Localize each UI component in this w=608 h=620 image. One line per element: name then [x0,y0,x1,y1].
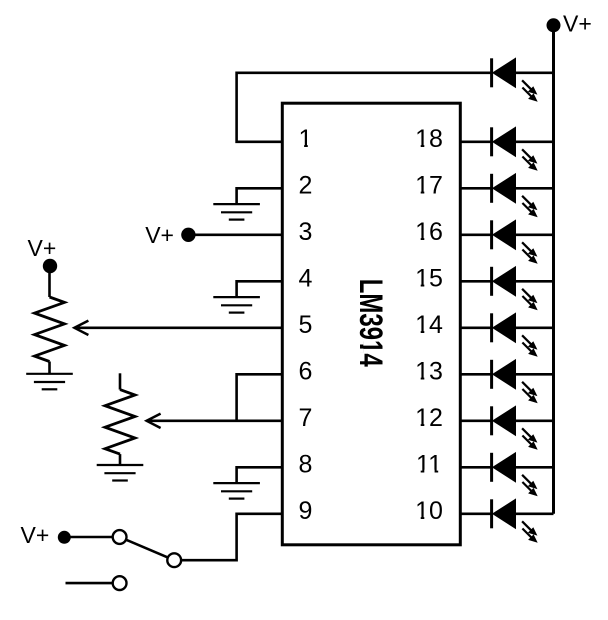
pin 1 label [299,125,313,153]
svg-text:17: 17 [415,172,443,200]
switch SW1 contact B [113,576,127,590]
pin 10 label [415,497,443,525]
pin 2 label [299,172,313,200]
wire pin 3 [188,234,282,237]
wire pin 7 wiper arrow [147,414,283,428]
switch SW1 lever [120,537,175,560]
ground (pin 2) [213,204,260,220]
LED D8 [492,406,554,450]
LED D9 [492,453,554,497]
ground (R1) [26,374,73,390]
wire switch throw B stub [66,582,120,585]
wire pin 14 stub [460,326,491,329]
wire pin 13 stub [460,373,491,376]
switch SW1 contact A [113,530,127,544]
svg-text:4: 4 [299,265,313,293]
svg-text:V+: V+ [563,10,592,36]
LED D4 [492,220,554,263]
LED D5 [492,267,554,311]
svg-text:5: 5 [299,311,313,339]
LED D10 [492,499,554,543]
pin 13 label [415,358,443,386]
svg-text:10: 10 [415,497,443,525]
wire pin 4 [237,281,283,297]
svg-text:V+: V+ [145,222,174,248]
wire pin 15 stub [460,280,491,283]
ground (pin 4) [213,297,260,313]
svg-text:14: 14 [415,311,443,339]
pin 5 label [299,311,313,339]
pin 3 label [299,218,313,246]
svg-text:7: 7 [299,404,313,432]
svg-text:3: 3 [299,218,313,246]
pin 14 label [415,311,443,339]
node V+ terminal switch [21,522,71,548]
wire V+ to switch pole [65,536,120,539]
node V+ terminal R1 [28,235,58,273]
LED D1 [492,58,554,102]
wire pin 8 [237,467,283,483]
pin 16 label [415,218,443,246]
wire V+ rail (right) [552,25,555,514]
node V+ terminal top-right [547,10,592,36]
wire pin 16 stub [460,234,491,237]
svg-text:13: 13 [415,358,443,386]
wire pin 9 to switch [174,514,282,560]
svg-text:16: 16 [415,218,443,246]
ground (pin 8) [213,483,260,499]
wire pin 10 stub [460,512,491,515]
IC value label LM3914 [353,279,389,367]
wire pin 6 to pin 7 net [237,374,283,421]
pin 18 label [415,125,443,153]
switch SW1 common contact [167,553,181,567]
pin 9 label [299,497,313,525]
wire pin 2 [237,188,283,204]
LED D3 [492,174,554,218]
wire pin 18 stub [460,141,491,144]
LED D7 [492,360,554,404]
svg-text:V+: V+ [28,235,57,261]
pin 15 label [415,265,443,293]
wire pin 11 stub [460,466,491,469]
glyph cleanup overlay (white, not a component) [298,144,444,520]
pin 17 label [415,172,443,200]
pin 6 label [299,358,313,386]
potentiometer R1 [35,266,65,374]
pin 7 label [299,404,313,432]
wire pin 12 stub [460,419,491,422]
wire pin 17 stub [460,187,491,190]
svg-text:2: 2 [299,172,313,200]
pin 11 label [416,451,442,479]
svg-text:1: 1 [299,125,313,153]
svg-text:12: 12 [415,404,443,432]
svg-text:11: 11 [416,451,442,479]
pin 12 label [415,404,443,432]
svg-text:9: 9 [299,497,313,525]
potentiometer R2 [105,373,135,465]
svg-text:18: 18 [415,125,443,153]
svg-text:6: 6 [299,358,313,386]
wire pin 1 to top LED D1 [237,73,492,142]
svg-text:LM3914: LM3914 [353,279,389,367]
ground (R2) [97,465,144,481]
wire pin 5 wiper arrow [74,321,282,335]
pin 8 label [299,451,313,479]
svg-text:8: 8 [299,451,313,479]
pin 4 label [299,265,313,293]
LED D2 [492,127,554,171]
IC U1 LM3914 body [282,103,460,545]
node V+ terminal pin 3 [145,222,195,248]
svg-text:15: 15 [415,265,443,293]
LED D6 [492,313,554,357]
svg-text:V+: V+ [21,522,50,548]
